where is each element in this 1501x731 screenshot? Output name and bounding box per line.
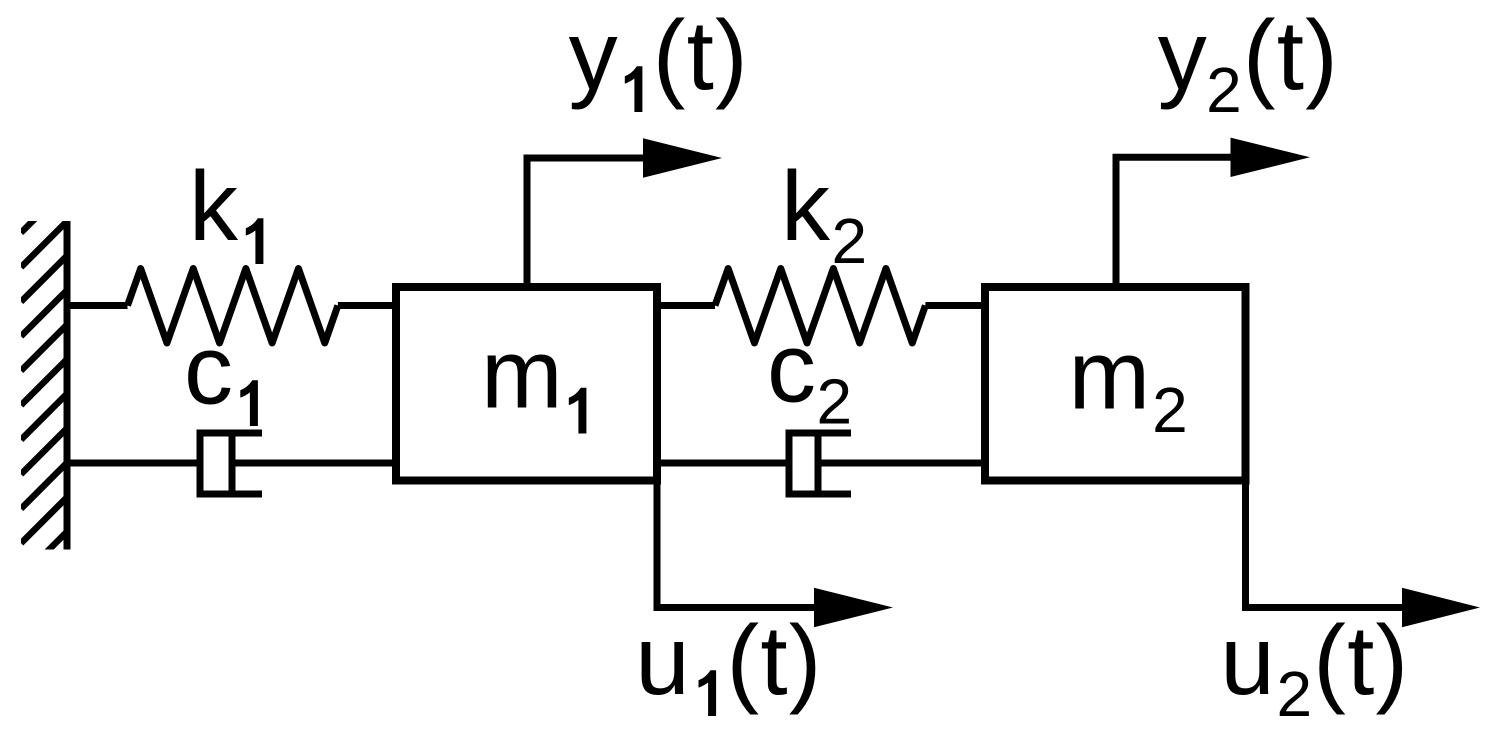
arrowhead y2 [1231, 138, 1311, 177]
damper c2 cylinder [786, 430, 852, 498]
input arrow u2 [1246, 485, 1403, 608]
svg-text:y1(t): y1(t) [569, 0, 749, 126]
wire damper c1 to mass m1 [232, 460, 396, 467]
mass m2 box [985, 287, 1246, 481]
wire damper c2 to mass m2 [818, 460, 985, 467]
svg-text:u2(t): u2(t) [1220, 605, 1409, 730]
output arrow y2 [1116, 157, 1231, 287]
damper c1 piston [229, 433, 236, 494]
svg-text:c: c [184, 315, 233, 425]
wire spring k2 to mass m2 [925, 302, 985, 309]
wall line [64, 221, 71, 550]
wire mass m1 to spring k2 [657, 302, 715, 309]
wall hatching [21, 187, 67, 578]
wire wall to damper c1 [64, 460, 201, 467]
arrowhead u1 [814, 588, 893, 627]
wire mass m1 to damper c2 [657, 460, 789, 467]
arrowhead u2 [1402, 588, 1480, 627]
arrowhead y1 [643, 138, 722, 177]
damper c1 cylinder [197, 430, 263, 498]
svg-text:y2(t): y2(t) [1158, 0, 1339, 126]
svg-text:u1(t): u1(t) [635, 605, 822, 730]
wire spring k1 to mass m1 [338, 302, 396, 309]
svg-text:k2: k2 [781, 151, 867, 277]
svg-text:c2: c2 [767, 313, 852, 438]
output arrow y1 [527, 158, 644, 287]
damper c2 piston [815, 433, 822, 494]
mass m1 box [396, 287, 657, 481]
spring k2 [715, 269, 925, 344]
spring k1 [128, 269, 338, 344]
svg-text:m: m [481, 319, 563, 429]
wire wall to spring k1 [64, 302, 128, 309]
svg-text:k: k [189, 151, 239, 261]
input arrow u1 [657, 485, 815, 608]
